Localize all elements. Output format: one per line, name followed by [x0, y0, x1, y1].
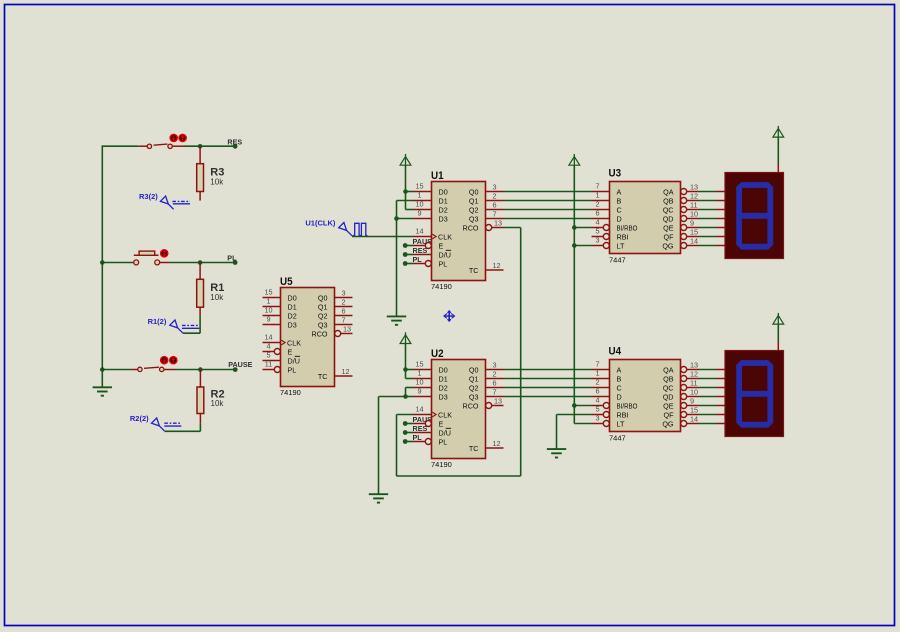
terminal dot PL U2 [403, 439, 408, 444]
terminal R1(2) [148, 317, 200, 333]
svg-text:RCO: RCO [312, 329, 328, 338]
svg-text:QA: QA [663, 187, 674, 196]
svg-text:Q0: Q0 [469, 365, 479, 374]
svg-text:6: 6 [342, 306, 346, 315]
power terminal VCC U3 [569, 154, 580, 165]
svg-text:QC: QC [663, 383, 674, 392]
svg-text:2: 2 [493, 369, 497, 378]
svg-text:3: 3 [493, 360, 497, 369]
svg-text:12: 12 [493, 261, 501, 270]
svg-text:D/U: D/U [439, 250, 451, 259]
svg-text:U1(CLK): U1(CLK) [305, 218, 335, 227]
svg-text:14: 14 [415, 405, 423, 414]
svg-text:CLK: CLK [438, 232, 452, 241]
svg-text:11: 11 [690, 378, 698, 387]
wire PAUSE to U2 pin [405, 423, 413, 425]
svg-text:PL: PL [227, 254, 237, 263]
ground under U2 [369, 494, 388, 502]
svg-text:PL: PL [439, 437, 448, 446]
junction U1 D0 [403, 189, 408, 194]
svg-text:LT: LT [617, 241, 625, 250]
svg-text:R3(2): R3(2) [139, 192, 158, 201]
terminal PAUSE [228, 360, 252, 372]
svg-text:Q1: Q1 [318, 302, 328, 311]
svg-text:TC: TC [318, 372, 328, 381]
svg-text:RCO: RCO [463, 401, 479, 410]
wire left vertical rail [101, 146, 103, 387]
svg-text:B: B [617, 196, 622, 205]
svg-text:13: 13 [690, 182, 698, 191]
IC U4 7447 decoder [592, 346, 699, 443]
svg-text:3: 3 [493, 182, 497, 191]
resistor R3 10k [197, 164, 225, 192]
svg-text:BI/RBO: BI/RBO [617, 223, 638, 232]
svg-text:QF: QF [664, 232, 675, 241]
ground left rail [93, 387, 112, 395]
wire power to display 2 [777, 324, 779, 342]
svg-text:12: 12 [342, 367, 350, 376]
svg-text:5: 5 [595, 405, 599, 414]
svg-text:15: 15 [415, 360, 423, 369]
IC U1 74190 counter [414, 170, 504, 291]
svg-text:CLK: CLK [438, 410, 452, 419]
push button PL actuator [160, 249, 169, 258]
svg-text:R1(2): R1(2) [148, 317, 167, 326]
wire PAUSE row left [102, 369, 130, 371]
svg-text:PL: PL [413, 433, 423, 442]
svg-text:QG: QG [662, 419, 674, 428]
svg-text:14: 14 [690, 236, 698, 245]
terminal U1(CLK) with clock symbol [305, 218, 367, 235]
svg-text:D0: D0 [439, 365, 448, 374]
svg-text:D0: D0 [439, 187, 448, 196]
svg-text:4: 4 [595, 218, 599, 227]
svg-text:QB: QB [663, 196, 674, 205]
svg-text:QA: QA [663, 365, 674, 374]
svg-text:4: 4 [266, 342, 270, 351]
svg-text:7: 7 [493, 209, 497, 218]
svg-text:PL: PL [288, 365, 297, 374]
svg-text:1: 1 [417, 191, 421, 200]
wire U1 RCO feedback to U2 CLK [397, 228, 521, 477]
terminal dot RES U1 [403, 252, 408, 257]
wire PL row right [170, 262, 235, 264]
svg-text:PAUSE: PAUSE [228, 360, 252, 369]
svg-text:U5: U5 [280, 276, 293, 288]
svg-text:13: 13 [343, 324, 351, 333]
svg-text:D: D [617, 214, 622, 223]
wire PL to U1 pin [405, 263, 413, 265]
wire U2 D3 to ground rail [379, 397, 414, 495]
svg-text:7447: 7447 [609, 434, 626, 443]
svg-text:Q2: Q2 [469, 205, 479, 214]
svg-text:3: 3 [595, 414, 599, 423]
svg-text:B: B [617, 374, 622, 383]
svg-text:15: 15 [690, 405, 698, 414]
wire RES row left [102, 145, 139, 147]
wire power to U2 D0 [405, 343, 407, 369]
svg-text:13: 13 [494, 218, 502, 227]
junction U3 LT [572, 243, 577, 248]
svg-text:Q2: Q2 [318, 311, 328, 320]
terminal dot PAUSE U1 [403, 243, 408, 248]
svg-text:D1: D1 [439, 374, 448, 383]
origin marker (blue) [444, 311, 455, 322]
wires U4 QA-QG to display 2 [699, 370, 717, 424]
IC U5 74190 counter [263, 276, 353, 397]
svg-text:RBI: RBI [617, 410, 629, 419]
wire R1 bottom [183, 307, 200, 333]
svg-text:PL: PL [439, 259, 448, 268]
svg-text:D1: D1 [439, 196, 448, 205]
svg-text:CLK: CLK [287, 338, 301, 347]
wire U2 D2 to D3 [406, 388, 414, 397]
svg-text:9: 9 [417, 209, 421, 218]
svg-text:Q1: Q1 [469, 196, 479, 205]
svg-text:10: 10 [690, 209, 698, 218]
wire U3 power rail down to U4 [574, 165, 591, 424]
svg-text:Q3: Q3 [469, 392, 479, 401]
svg-text:7447: 7447 [609, 256, 626, 265]
wire PL row left [102, 262, 133, 264]
svg-text:10k: 10k [210, 177, 224, 186]
svg-text:E: E [288, 347, 293, 356]
svg-text:C: C [617, 205, 622, 214]
svg-text:QD: QD [663, 392, 674, 401]
wire U2 D0 [406, 369, 414, 371]
svg-text:9: 9 [690, 396, 694, 405]
terminal PL [227, 254, 237, 265]
wires U3 QA-QG to display 1 [699, 192, 717, 246]
svg-text:3: 3 [342, 288, 346, 297]
svg-text:D/U: D/U [439, 428, 451, 437]
terminal R2(2) [130, 414, 181, 431]
svg-text:74190: 74190 [431, 460, 452, 469]
terminal RES [227, 138, 242, 149]
svg-text:D2: D2 [288, 311, 297, 320]
svg-text:D3: D3 [439, 214, 448, 223]
wire RES to U2 pin [405, 432, 413, 434]
svg-text:E: E [439, 241, 444, 250]
IC U2 74190 counter [414, 348, 504, 469]
svg-text:Q2: Q2 [469, 383, 479, 392]
power terminal VCC U1 [400, 154, 411, 165]
svg-text:U2: U2 [431, 348, 444, 360]
svg-text:C: C [617, 383, 622, 392]
7-segment display 1 [725, 173, 784, 259]
svg-text:10: 10 [415, 200, 423, 209]
wire U4 RBI to ground [557, 415, 592, 450]
svg-text:D3: D3 [439, 392, 448, 401]
svg-text:10k: 10k [211, 399, 225, 408]
svg-text:14: 14 [690, 414, 698, 423]
power terminal display 2 [773, 313, 784, 324]
junction PL/R1 [198, 260, 203, 265]
7-segment display 2 [725, 351, 784, 437]
push button PL [134, 251, 170, 265]
svg-text:6: 6 [493, 200, 497, 209]
svg-text:QF: QF [664, 410, 675, 419]
terminal dot RES U2 [403, 430, 408, 435]
svg-text:TC: TC [469, 444, 479, 453]
svg-text:A: A [617, 365, 622, 374]
wire power to U1 D0 [405, 165, 407, 192]
junction PAUSE/R2 [198, 367, 203, 372]
svg-text:7: 7 [493, 387, 497, 396]
svg-text:QB: QB [663, 374, 674, 383]
junction U2 D3 [403, 394, 408, 399]
svg-text:6: 6 [595, 387, 599, 396]
svg-text:15: 15 [415, 182, 423, 191]
terminal dot PL U1 [403, 261, 408, 266]
ground under U1 [387, 316, 406, 324]
svg-text:1: 1 [417, 369, 421, 378]
svg-text:7: 7 [342, 315, 346, 324]
svg-text:QE: QE [663, 401, 674, 410]
svg-text:9: 9 [266, 315, 270, 324]
svg-text:12: 12 [690, 191, 698, 200]
svg-text:1: 1 [266, 297, 270, 306]
svg-text:QE: QE [663, 223, 674, 232]
svg-text:6: 6 [493, 378, 497, 387]
svg-text:RES: RES [227, 138, 242, 147]
svg-text:D2: D2 [439, 205, 448, 214]
switch PAUSE (SPST) [130, 367, 175, 371]
power terminal display 1 [773, 126, 784, 137]
svg-text:RCO: RCO [463, 223, 479, 232]
svg-text:6: 6 [595, 209, 599, 218]
svg-text:11: 11 [265, 360, 273, 369]
svg-text:D/U: D/U [288, 356, 300, 365]
svg-text:12: 12 [493, 439, 501, 448]
svg-text:Q3: Q3 [318, 320, 328, 329]
svg-text:D1: D1 [288, 302, 297, 311]
svg-text:QD: QD [663, 214, 674, 223]
resistor R1 10k [197, 279, 225, 307]
svg-text:11: 11 [690, 200, 698, 209]
svg-text:2: 2 [595, 200, 599, 209]
svg-text:1: 1 [595, 369, 599, 378]
wire U1 D0 [406, 191, 414, 193]
ground U4 RBI [547, 449, 566, 457]
switch PAUSE actuators [160, 356, 178, 365]
IC U3 7447 decoder [592, 168, 699, 265]
svg-text:5: 5 [595, 227, 599, 236]
display 2 pin stubs [717, 342, 779, 424]
svg-text:14: 14 [415, 227, 423, 236]
wire PAUSE row right [175, 369, 235, 371]
svg-text:7: 7 [595, 360, 599, 369]
power terminal VCC U2 [400, 332, 411, 343]
wire power rail to U1 D2 [406, 192, 414, 210]
svg-text:PL: PL [413, 255, 423, 264]
switch RES actuators [169, 134, 187, 143]
display 1 pin stubs [717, 164, 779, 246]
svg-text:BI/RBO: BI/RBO [617, 401, 638, 410]
svg-text:Q0: Q0 [318, 293, 328, 302]
svg-text:E: E [439, 419, 444, 428]
svg-text:A: A [617, 187, 622, 196]
junction U1 D3 [394, 216, 399, 221]
wire power to display 1 [777, 137, 779, 164]
svg-text:9: 9 [417, 387, 421, 396]
svg-text:Q1: Q1 [469, 374, 479, 383]
svg-text:RBI: RBI [617, 232, 629, 241]
junction U3 BI/RBO [572, 225, 577, 230]
junction left rail / PAUSE row [100, 367, 105, 372]
wires U2 Q0-Q3 to U4 A-D [504, 370, 592, 397]
svg-text:9: 9 [690, 218, 694, 227]
svg-text:R2(2): R2(2) [130, 414, 149, 423]
svg-text:Q0: Q0 [469, 187, 479, 196]
svg-text:D: D [617, 392, 622, 401]
svg-text:D3: D3 [288, 320, 297, 329]
svg-text:2: 2 [493, 191, 497, 200]
wire power rail to U2 D1 [406, 370, 414, 379]
wire R2 bottom [165, 414, 201, 432]
svg-text:10: 10 [264, 306, 272, 315]
svg-text:14: 14 [264, 333, 272, 342]
resistor R2 10k [197, 387, 225, 414]
svg-text:15: 15 [690, 227, 698, 236]
svg-text:5: 5 [266, 351, 270, 360]
junction left rail / PL row [100, 260, 105, 265]
svg-text:TC: TC [469, 266, 479, 275]
wire CLK source to U1 CLK [352, 236, 414, 238]
wire U1 ground rail / D1, D3 [397, 201, 414, 317]
svg-text:10: 10 [690, 387, 698, 396]
svg-text:15: 15 [264, 288, 272, 297]
svg-text:10: 10 [415, 378, 423, 387]
svg-text:13: 13 [494, 396, 502, 405]
svg-text:13: 13 [690, 360, 698, 369]
terminal dot PAUSE U2 [403, 421, 408, 426]
junction U4 BI/RBO [572, 403, 577, 408]
svg-text:QC: QC [663, 205, 674, 214]
svg-text:U3: U3 [609, 168, 622, 180]
junction U2 D0 [403, 367, 408, 372]
junction RES/R3 [198, 144, 203, 149]
wire PL to U2 pin [405, 441, 413, 443]
svg-text:LT: LT [617, 419, 625, 428]
svg-text:1: 1 [595, 191, 599, 200]
svg-text:74190: 74190 [280, 388, 301, 397]
svg-text:7: 7 [595, 182, 599, 191]
svg-text:12: 12 [690, 369, 698, 378]
svg-text:2: 2 [342, 297, 346, 306]
switch RES (SPST) [138, 144, 184, 148]
svg-text:QG: QG [662, 241, 674, 250]
wire RES to U1 pin [405, 254, 413, 256]
svg-text:U1: U1 [431, 170, 444, 182]
svg-text:D2: D2 [439, 383, 448, 392]
svg-text:4: 4 [595, 396, 599, 405]
wires U1 Q0-Q3 to U3 A-D [504, 192, 592, 219]
svg-text:D0: D0 [288, 293, 297, 302]
svg-text:10k: 10k [210, 293, 224, 302]
svg-text:74190: 74190 [431, 282, 452, 291]
terminal R3(2) [139, 192, 190, 209]
svg-text:2: 2 [595, 378, 599, 387]
svg-text:Q3: Q3 [469, 214, 479, 223]
wire PAUSE to U1 pin [405, 245, 413, 247]
svg-text:3: 3 [595, 236, 599, 245]
svg-text:U4: U4 [609, 346, 622, 358]
wire R3 bottom stub [199, 192, 201, 201]
wire RES row right [185, 145, 236, 147]
